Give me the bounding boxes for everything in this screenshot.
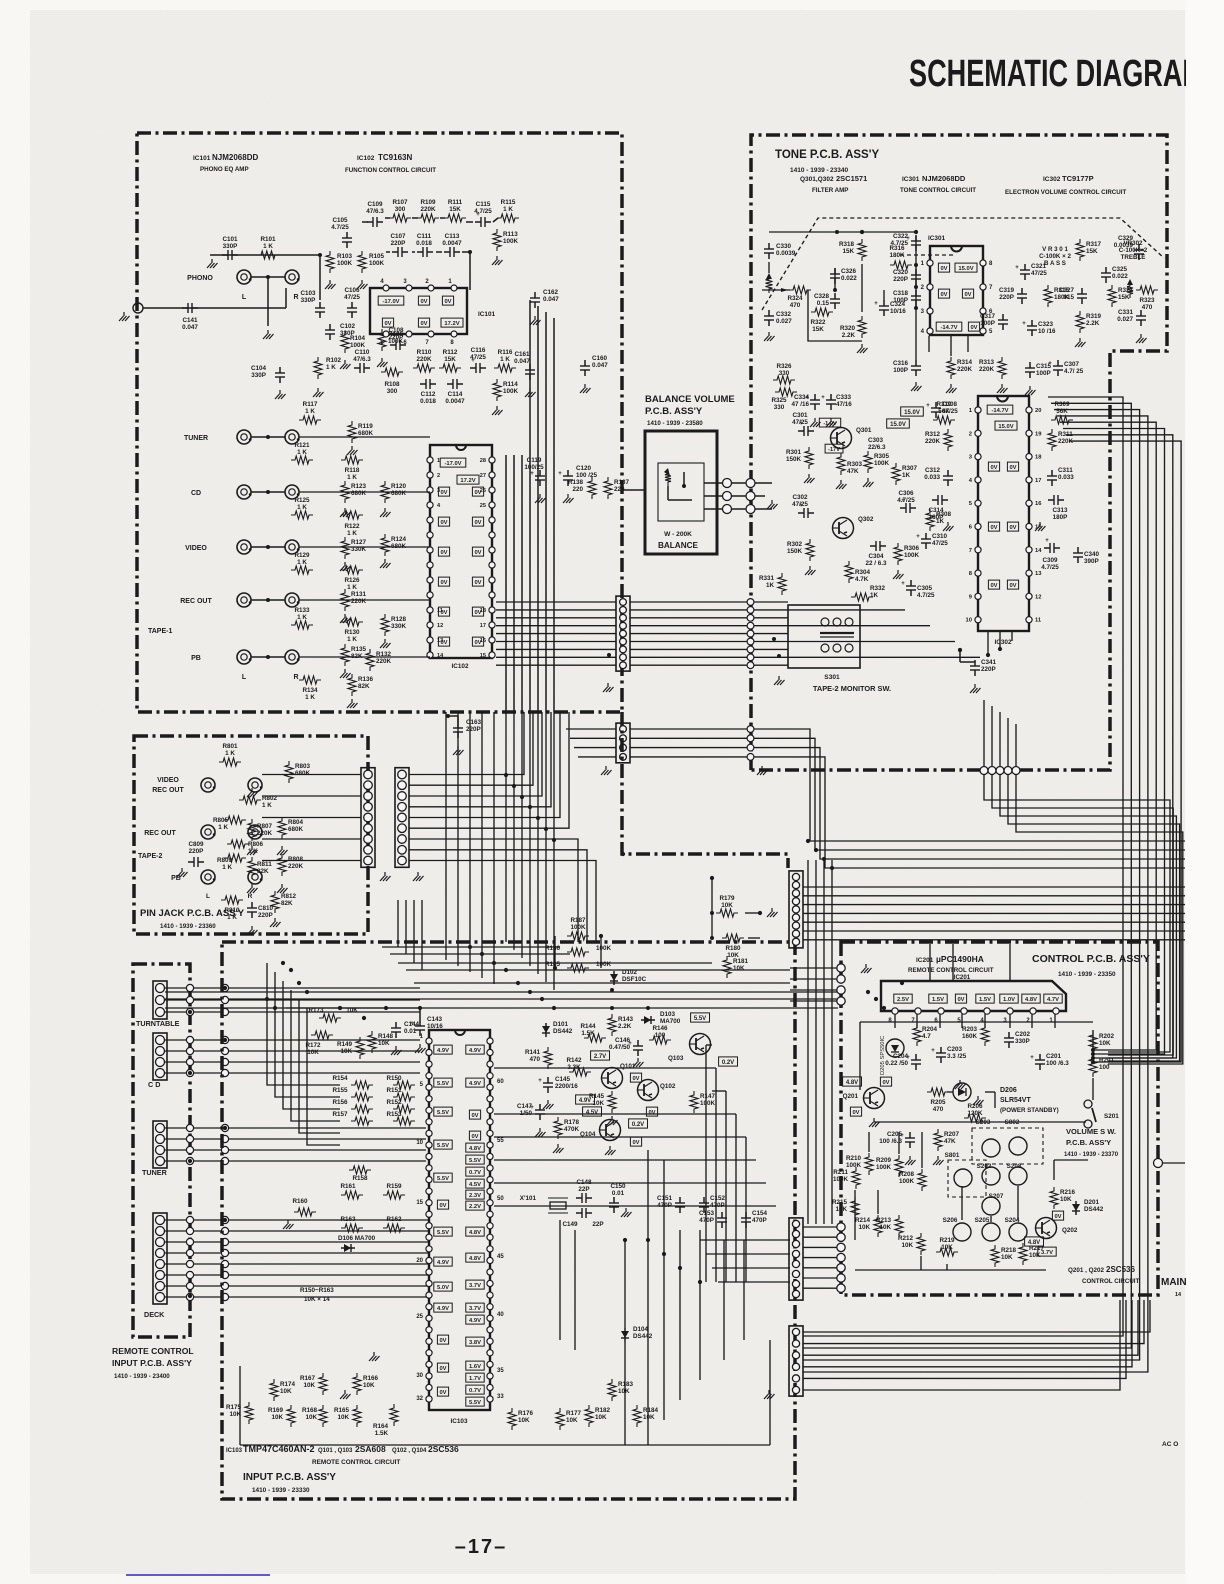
voltage label IC103 R 4.5V xyxy=(466,1179,484,1188)
voltage label 2.7V xyxy=(591,1051,610,1060)
resistor R161 xyxy=(341,1191,363,1199)
capacitor C319 xyxy=(1017,288,1027,304)
resistor R141 xyxy=(544,1047,552,1069)
ground xyxy=(347,446,358,455)
label C145 xyxy=(555,1076,578,1090)
ground xyxy=(263,330,274,339)
label C163 xyxy=(466,719,482,733)
label C311 xyxy=(1058,467,1074,481)
wire D104 net xyxy=(624,1240,626,1445)
ground xyxy=(177,868,188,877)
ground xyxy=(943,522,954,531)
resistor R305 xyxy=(864,451,872,473)
label R166 xyxy=(363,1375,379,1389)
resistor R182 xyxy=(585,1405,593,1427)
resistor R806 xyxy=(227,840,249,848)
wire bundle IC103-right xyxy=(494,1045,790,1282)
voltage label IC102 0V xyxy=(472,547,483,556)
connector control-left-top xyxy=(837,964,845,1005)
diode D102 xyxy=(610,971,618,985)
label R208 xyxy=(899,1171,915,1185)
title SCHEMATIC DIAGRAM xyxy=(909,53,1205,95)
ground xyxy=(607,1116,618,1125)
wire c341 xyxy=(958,648,975,662)
voltage label IC302 0V e xyxy=(988,580,999,589)
resistor R319 xyxy=(1076,311,1084,333)
label R215 xyxy=(832,1199,848,1213)
voltage label IC302 -14.7V xyxy=(987,405,1013,414)
capacitor C810 xyxy=(247,902,257,918)
resistor R201 xyxy=(1089,1055,1097,1077)
label D104 DS442 xyxy=(633,1326,653,1340)
voltage label IC301 0V xyxy=(938,289,949,298)
resistor R302 xyxy=(806,539,814,561)
label R152 xyxy=(386,1099,402,1106)
voltage label IC302 15.0V xyxy=(995,421,1017,430)
resistor R311 xyxy=(1048,429,1056,451)
capacitor C324 xyxy=(874,300,889,316)
voltage label IC101 pin2 xyxy=(442,296,453,305)
resistor R215 xyxy=(851,1197,859,1219)
ground xyxy=(767,500,778,509)
label R201 xyxy=(1099,1057,1115,1071)
resistor R165 xyxy=(353,1405,361,1427)
ground xyxy=(535,494,546,503)
label S208 xyxy=(1007,1163,1022,1170)
junction q cluster xyxy=(610,988,650,1010)
label R141 xyxy=(525,1049,541,1063)
label R137 xyxy=(614,479,630,493)
label PIN JACK xyxy=(140,908,245,930)
label C119 xyxy=(524,457,544,471)
wire r179 net xyxy=(710,878,760,940)
label R325 xyxy=(771,397,787,411)
label S206 xyxy=(943,1217,958,1224)
resistor R134 xyxy=(299,676,321,684)
ground xyxy=(893,570,904,579)
capacitor C341 xyxy=(970,660,980,676)
label R332 xyxy=(870,585,886,599)
diode D104 xyxy=(621,1328,629,1342)
jack REC OUT-R xyxy=(285,593,300,607)
resistor R151 xyxy=(393,1093,415,1101)
label R133 xyxy=(294,607,310,621)
wire ic302 drops xyxy=(988,631,1012,655)
label TAPE-2 MONITOR SW xyxy=(813,684,891,693)
voltage label IC103 R 5.5V xyxy=(466,1155,484,1164)
label C324 xyxy=(890,301,906,315)
potentiometer W-200K balance xyxy=(658,463,704,521)
ground xyxy=(247,926,258,935)
voltage label IC102 0V xyxy=(438,487,449,496)
label Q301 2SC1571 xyxy=(800,174,867,194)
label IC102 TC9163N xyxy=(345,153,436,174)
label C102 xyxy=(340,323,356,337)
switch S202 xyxy=(982,1167,1000,1185)
ground xyxy=(207,259,218,268)
ground xyxy=(340,669,351,678)
label R802 xyxy=(262,795,278,809)
label CD conn xyxy=(148,1080,160,1089)
capacitor C330 xyxy=(764,243,774,259)
label D101 DS442 xyxy=(553,1021,573,1035)
resistor R128 xyxy=(381,614,389,636)
capacitor C149 xyxy=(576,1208,592,1218)
label C330 xyxy=(776,243,796,257)
voltage label IC103 L 5.5V xyxy=(434,1173,452,1182)
label C302 xyxy=(792,494,808,508)
ground xyxy=(380,559,391,568)
label R119 xyxy=(358,423,374,437)
resistor R149 xyxy=(356,1037,364,1059)
resistor R110 xyxy=(413,364,435,372)
ground xyxy=(413,872,424,881)
label C320 xyxy=(893,269,909,283)
wire remote rows xyxy=(165,988,429,1297)
ground xyxy=(621,1208,632,1217)
ground xyxy=(1136,334,1147,343)
ground xyxy=(603,683,614,692)
ground xyxy=(774,676,785,685)
capacitor C101 xyxy=(222,250,238,260)
label R307 xyxy=(902,465,918,479)
ground xyxy=(973,1096,984,1105)
resistor R101 xyxy=(257,251,279,259)
label C161 xyxy=(514,351,530,365)
label Q202 xyxy=(1062,1227,1078,1234)
switch S204 xyxy=(1009,1223,1027,1241)
wire bundle pre-input xyxy=(165,947,838,1008)
capacitor C107 xyxy=(392,247,408,257)
node control-right xyxy=(1154,1159,1186,1168)
resistor R114 xyxy=(493,379,501,401)
label R106 xyxy=(388,331,404,345)
label R184 xyxy=(643,1407,659,1421)
ground xyxy=(525,388,536,397)
ground xyxy=(380,872,391,881)
label C143 xyxy=(427,1016,443,1030)
capacitor C301 xyxy=(798,421,814,436)
resistor R155 xyxy=(351,1093,373,1101)
label R102 xyxy=(326,357,342,371)
label R108 xyxy=(384,381,400,395)
label R111 xyxy=(448,199,463,213)
voltage label IC103 R 3.7V xyxy=(466,1280,484,1289)
connector conn-B2 xyxy=(747,726,754,761)
label R318 xyxy=(839,241,855,255)
resistor R146 xyxy=(649,1036,671,1044)
resistor R203 xyxy=(981,1024,989,1046)
ground xyxy=(391,1046,402,1055)
wire r18x loops xyxy=(555,936,601,968)
label R175 xyxy=(226,1404,242,1418)
jack PHONO-R xyxy=(285,270,300,284)
capacitor C108 xyxy=(390,340,406,350)
ground xyxy=(757,766,768,775)
label C307 xyxy=(1064,361,1084,375)
capacitor C305 xyxy=(901,580,916,596)
label R118 xyxy=(345,467,360,481)
capacitor C110 xyxy=(354,363,370,373)
wire control internals xyxy=(855,1014,1093,1270)
capacitor C115 xyxy=(475,212,491,227)
label R805 xyxy=(213,817,229,831)
label R302 xyxy=(787,541,803,555)
ground xyxy=(357,280,368,289)
label C334 xyxy=(791,394,809,408)
resistor R807 xyxy=(248,819,256,841)
label C110 xyxy=(353,349,371,363)
voltage label IC302 0V f xyxy=(1007,580,1018,589)
label R167 xyxy=(300,1375,316,1389)
resistor R332 xyxy=(851,593,873,601)
label R214 xyxy=(855,1217,871,1231)
jack VIDEO-L xyxy=(185,540,251,554)
label C201 xyxy=(1046,1053,1069,1067)
resistor R118 xyxy=(341,456,363,464)
label C322 xyxy=(890,233,908,247)
voltage label IC103 R 1.7V xyxy=(466,1373,484,1382)
resistor R153 xyxy=(393,1117,415,1125)
connector pinjack-B xyxy=(395,768,409,868)
label R103 xyxy=(337,253,353,267)
capacitor C325 xyxy=(1101,267,1111,283)
resistor R117 xyxy=(299,416,321,424)
label R312 xyxy=(925,431,941,445)
voltage label 0.2V q103 xyxy=(719,1057,738,1066)
connector control-left-bot xyxy=(837,1223,845,1293)
transistor Q201 xyxy=(864,1088,885,1109)
voltage label IC103 R 4.8V xyxy=(466,1253,484,1262)
capacitor C304 xyxy=(870,541,886,551)
label R104 xyxy=(350,335,366,349)
ground xyxy=(492,256,503,265)
microcontroller IC103 xyxy=(416,1030,504,1425)
resistor R804 xyxy=(278,817,286,839)
resistor R206 xyxy=(964,1114,986,1122)
label C146 xyxy=(609,1037,631,1051)
resistor R162 xyxy=(383,1224,405,1232)
resistor R103 xyxy=(326,251,334,273)
capacitor C202 xyxy=(1004,1032,1014,1048)
transistor Q104 xyxy=(580,1120,621,1141)
capacitor C313 xyxy=(1048,495,1064,505)
capacitor C163 xyxy=(453,722,463,738)
label C113 xyxy=(442,233,462,247)
resistor R109 xyxy=(417,214,439,222)
label R165 xyxy=(334,1407,350,1421)
ground xyxy=(247,788,258,797)
voltage label 4.8V q202 xyxy=(1025,1237,1044,1246)
label R807 xyxy=(257,823,273,837)
capacitor C322 xyxy=(906,235,921,251)
label R148 xyxy=(378,1033,394,1047)
label R158 xyxy=(352,1175,368,1182)
resistor R125 xyxy=(291,511,313,519)
junction feedthroughs xyxy=(186,984,228,1300)
capacitor C314 xyxy=(932,495,948,505)
ground xyxy=(933,1156,944,1165)
diode D106 xyxy=(341,1244,355,1252)
label L R pj xyxy=(206,893,253,900)
label IC101 NJM2068DD xyxy=(193,153,258,173)
ground xyxy=(946,384,957,393)
voltage label 4.8V q201 xyxy=(843,1077,862,1086)
box REMOTE INPUT border xyxy=(133,964,190,1337)
ground xyxy=(767,908,778,917)
crystal X101 xyxy=(520,1195,568,1213)
wire control feeds xyxy=(790,968,837,1001)
label DECK conn xyxy=(144,1310,165,1319)
transistor Q101 xyxy=(602,1063,636,1089)
voltage label IC103 R 2.2V xyxy=(466,1201,484,1210)
ground xyxy=(905,1156,916,1165)
resistor R312 xyxy=(944,429,952,451)
wire bundle to-main-right xyxy=(754,729,1185,940)
resistor R135 xyxy=(341,644,349,666)
box INPUT/FUNCTION pcb border xyxy=(137,133,622,712)
voltage label 3.7V q202 xyxy=(1038,1247,1056,1256)
voltage label 0V q201a xyxy=(880,1077,891,1086)
voltage label IC102 0V xyxy=(438,547,449,556)
ground xyxy=(857,344,868,353)
ground xyxy=(1035,522,1046,531)
label R211 xyxy=(833,1169,849,1183)
ground xyxy=(325,280,336,289)
label IC301 xyxy=(900,174,976,194)
capacitor C203 xyxy=(931,1047,946,1063)
label R117 xyxy=(303,401,318,415)
ground xyxy=(1075,338,1086,347)
label R203 xyxy=(962,1026,978,1040)
resistor R143 xyxy=(608,1014,616,1036)
jack REC OUT-L xyxy=(180,593,251,607)
label BALANCE VOLUME xyxy=(645,394,735,427)
voltage label IC201 2.5V xyxy=(894,994,912,1003)
resistor R331 xyxy=(778,573,786,595)
label C333 xyxy=(836,394,852,408)
connector input-out-A xyxy=(789,871,803,948)
switch S301 xyxy=(788,605,860,681)
label C326 xyxy=(841,268,857,282)
label R132 xyxy=(376,651,392,665)
resistor R136 xyxy=(348,674,356,696)
label R320 xyxy=(840,325,856,339)
resistor R175 xyxy=(245,1402,253,1424)
voltage label IC201 4.8V xyxy=(1022,994,1040,1003)
voltage label IC103 R 1.6V xyxy=(466,1361,484,1370)
wire q-cluster drops xyxy=(648,1150,744,1445)
wire conn2 left xyxy=(566,729,616,757)
label R173 xyxy=(308,1007,358,1014)
connector pinjack-A xyxy=(361,768,375,868)
dashed control line xyxy=(762,218,1164,310)
label C109 xyxy=(366,201,384,215)
ground xyxy=(453,746,464,755)
ground xyxy=(911,382,922,391)
resistor R147 xyxy=(690,1091,698,1113)
label R210 xyxy=(846,1155,862,1169)
capacitor C154 xyxy=(741,1212,751,1228)
wire bundle pj-down xyxy=(398,900,422,970)
switch S207 xyxy=(982,1197,1000,1215)
switch S205 xyxy=(982,1223,1000,1241)
voltage label IC102 0V xyxy=(438,607,449,616)
connector input-out-C xyxy=(789,1326,803,1396)
resistor R173 xyxy=(319,1014,341,1022)
resistor R112 xyxy=(439,364,461,372)
label C116 xyxy=(470,347,486,361)
voltage label IC103 R 3.7V xyxy=(466,1303,484,1312)
capacitor C201 xyxy=(1030,1054,1045,1070)
label IC302 TC9177P xyxy=(1005,174,1126,196)
label R317 xyxy=(1086,241,1102,255)
voltage label IC102 17.2V xyxy=(457,475,479,484)
capacitor C105 xyxy=(342,232,352,248)
label C141 xyxy=(182,317,198,331)
voltage label IC103 L 5.5V xyxy=(434,1078,452,1087)
resistor R133 xyxy=(291,621,313,629)
diode D201 xyxy=(1072,1201,1080,1215)
label R125 xyxy=(294,497,310,511)
connector TURNTABLE xyxy=(153,981,167,1019)
label R124 xyxy=(391,536,407,550)
label R183 xyxy=(618,1381,634,1395)
box PIN JACK border xyxy=(134,736,368,934)
label R129 xyxy=(294,552,310,566)
resistor R113 xyxy=(493,229,501,251)
wire control feeds bottom xyxy=(803,1227,837,1288)
label D206 xyxy=(1000,1087,1059,1114)
transistor Q302 xyxy=(833,516,874,539)
label R135 xyxy=(351,646,367,660)
label C149 xyxy=(562,1221,603,1228)
resistor R322 xyxy=(811,308,833,316)
voltage label IC201 4.7V xyxy=(1044,994,1062,1003)
label S204 xyxy=(1005,1217,1020,1224)
resistor R213 xyxy=(895,1215,903,1237)
capacitor C113 xyxy=(444,247,460,257)
wire bottom row xyxy=(240,1366,660,1445)
connector conn-B1 xyxy=(747,599,754,669)
label TONE PCB xyxy=(775,149,879,174)
capacitor C205 xyxy=(900,1132,915,1148)
label C107 xyxy=(390,233,406,247)
label R315 xyxy=(1054,287,1070,301)
resistor R318 xyxy=(858,239,866,261)
ground xyxy=(805,566,816,575)
label R812 xyxy=(281,893,297,907)
label C341 xyxy=(981,659,997,673)
potentiometer treble xyxy=(1127,279,1133,298)
jack VIDEO-R xyxy=(285,540,300,554)
voltage label IC103 L 0V xyxy=(437,1335,448,1344)
label C318 xyxy=(893,290,909,304)
label C309 xyxy=(1041,557,1059,571)
voltage label IC103 R 3.8V xyxy=(466,1337,484,1346)
label C111 xyxy=(416,233,432,247)
resistor R164 xyxy=(390,1404,398,1426)
wire bundle box1 inner xyxy=(506,455,522,712)
wire bundle central-vertical1b xyxy=(446,712,494,984)
wire eq mid xyxy=(386,250,472,290)
box TONE PCB border xyxy=(751,135,1167,770)
label C104 xyxy=(251,365,267,379)
resistor R310 xyxy=(933,416,955,424)
label C310 xyxy=(932,533,948,547)
capacitor C109 xyxy=(367,217,383,227)
label R806 xyxy=(248,841,264,855)
